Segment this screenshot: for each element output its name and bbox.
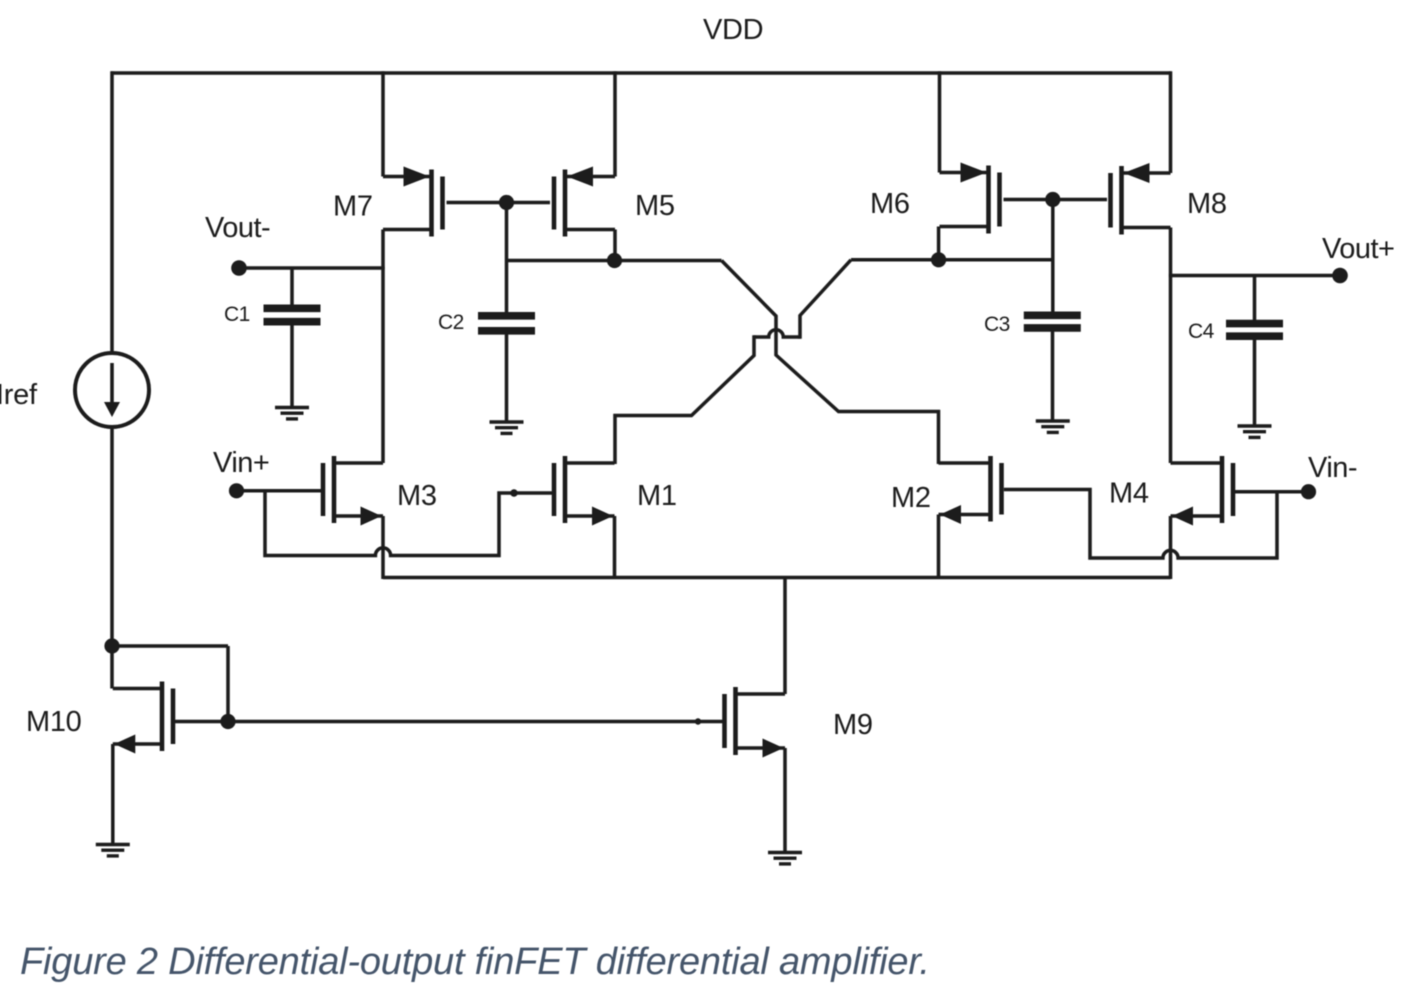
node M6-M8 gates — [1045, 192, 1060, 207]
node Vin+ terminal — [229, 483, 244, 498]
capacitor C3 — [1024, 315, 1081, 328]
ground C2 — [490, 422, 524, 433]
wire M8 drain to M4 drain — [1169, 228, 1173, 464]
svg-text:C2: C2 — [438, 311, 464, 334]
node Vout- terminal — [231, 260, 247, 276]
svg-text:M1: M1 — [637, 480, 677, 512]
wire Vout- to C1 — [290, 268, 294, 306]
wire M7 gate — [447, 201, 507, 205]
node M7-M5 gates — [499, 195, 514, 210]
svg-text:Vin-: Vin- — [1308, 452, 1357, 484]
wire node A to M10 drain — [110, 646, 114, 689]
wire Vin+ to M3 gate — [237, 489, 322, 493]
transistor M4 — [1171, 456, 1234, 526]
wire C4 to ground — [1253, 340, 1257, 426]
current source Iref — [75, 353, 149, 427]
wire M5 gate — [507, 201, 551, 205]
wire M5 drain down — [613, 230, 617, 261]
svg-text:M3: M3 — [397, 480, 437, 512]
wire Vout+ — [1169, 274, 1340, 278]
node M1 gate pin — [510, 489, 518, 497]
wire cross M5-node to M2 drain — [722, 261, 939, 465]
wire tail rail — [383, 576, 1171, 580]
ground C1 — [275, 408, 309, 419]
wire gate node to C3 — [1051, 200, 1055, 317]
svg-text:M5: M5 — [635, 190, 675, 222]
wire tail to M9 drain — [783, 578, 787, 695]
wire M4 source down — [1169, 516, 1173, 579]
ground M10 — [96, 845, 130, 856]
svg-text:M8: M8 — [1187, 188, 1227, 220]
svg-text:C4: C4 — [1188, 320, 1215, 343]
wire M6 gate — [1004, 198, 1053, 202]
node A Iref-M10 — [104, 638, 119, 653]
wire VDD rail — [111, 71, 1171, 75]
transistor M6 — [940, 163, 1000, 234]
svg-text:M2: M2 — [891, 482, 931, 514]
node M10 gate — [220, 714, 235, 729]
wire C2 to ground — [505, 334, 509, 422]
transistor M7 — [383, 167, 443, 237]
svg-text:M7: M7 — [333, 191, 373, 223]
transistor M5 — [554, 167, 615, 237]
wire cross M6-node to M1 drain part2 — [615, 335, 754, 464]
ground C4 — [1238, 426, 1272, 437]
transistor M8 — [1111, 163, 1171, 235]
transistor M10 — [113, 682, 173, 754]
ground M9 — [768, 853, 802, 864]
svg-text:M6: M6 — [870, 188, 910, 220]
transistor M1 — [554, 456, 615, 526]
wire VDD rail to Iref — [110, 71, 114, 353]
wire gate node to C2 — [505, 203, 509, 314]
svg-text:Vin+: Vin+ — [213, 447, 269, 479]
wire node A to gate column — [112, 644, 228, 648]
svg-text:Vout-: Vout- — [205, 212, 270, 244]
wire gate column down — [226, 646, 230, 723]
wire M9 source to ground — [783, 748, 787, 852]
wire cross hop over — [754, 330, 800, 337]
wire Vin- to M4 gate — [1235, 490, 1309, 494]
wire C3 to ground — [1051, 332, 1055, 421]
capacitor C2 — [478, 316, 535, 331]
wire M6 drain down — [937, 227, 941, 260]
wire M10 source to ground — [111, 744, 115, 844]
wire VDD to M5 source — [613, 71, 617, 176]
node M6 drain — [931, 252, 946, 267]
svg-text:VDD: VDD — [703, 14, 763, 46]
svg-text:M9: M9 — [833, 709, 873, 741]
wire M8 gate — [1053, 198, 1107, 202]
capacitor C4 — [1226, 324, 1283, 337]
wire bias node left — [507, 259, 722, 263]
wire VDD to M7 source — [381, 71, 385, 176]
wire Vout- — [239, 266, 385, 270]
wire M7 drain to M3 drain — [381, 230, 385, 464]
wire M3 source down — [381, 516, 385, 579]
svg-text:M10: M10 — [26, 706, 82, 738]
svg-text:Iref: Iref — [0, 379, 38, 411]
svg-text:Vout+: Vout+ — [1322, 233, 1395, 265]
wire M10-M9 gate bus — [175, 720, 723, 724]
transistor M9 — [725, 687, 786, 758]
wire Iref to node A — [110, 427, 114, 646]
wire Vin- jog — [1004, 490, 1277, 559]
node M9 gate pin — [695, 718, 701, 724]
transistor M3 — [323, 456, 383, 526]
svg-text:Figure 2 Differential-output f: Figure 2 Differential-output finFET diff… — [20, 941, 930, 983]
svg-text:M4: M4 — [1109, 478, 1149, 510]
node M5 drain — [607, 253, 622, 268]
wire Vin+ jog — [265, 489, 553, 556]
transistor M2 — [939, 456, 1002, 524]
wire M2 source down — [937, 515, 941, 580]
wire VDD to M6 source — [938, 71, 942, 172]
wire VDD to M8 source — [1169, 71, 1173, 173]
capacitor C1 — [264, 308, 321, 321]
svg-text:C1: C1 — [224, 303, 250, 326]
wire Vout+ to C4 — [1253, 276, 1257, 321]
node Vout+ terminal — [1332, 268, 1348, 284]
ground C3 — [1036, 421, 1070, 432]
wire bias node right — [851, 258, 1053, 262]
wire C1 to ground — [290, 325, 294, 408]
wire M1 source down — [613, 516, 617, 579]
svg-text:C3: C3 — [984, 313, 1010, 336]
wire cross M6-node to M1 drain part1 — [800, 260, 851, 339]
node Vin- terminal — [1301, 484, 1316, 499]
